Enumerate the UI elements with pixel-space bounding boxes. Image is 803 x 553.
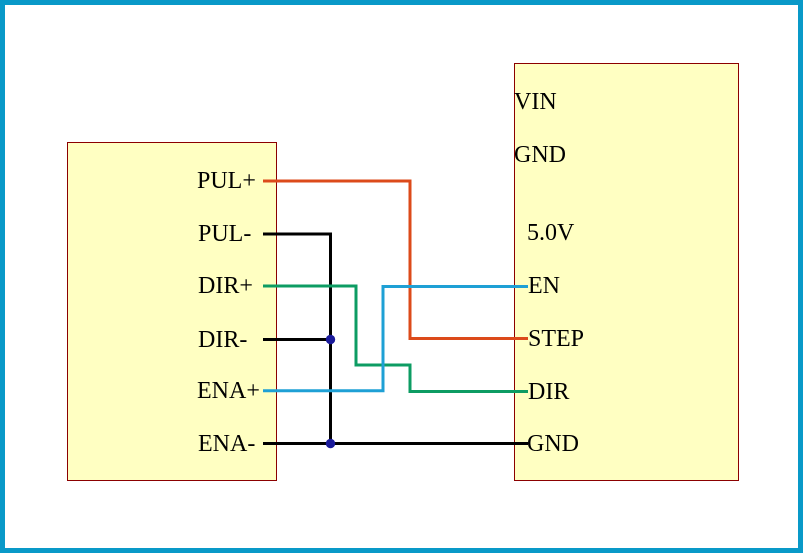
- pin label VIN: [514, 88, 557, 116]
- pin label ENA+: [197, 377, 260, 405]
- junction DIR-: [326, 335, 335, 344]
- pin label GND top: [514, 141, 566, 169]
- pin label 5.0V: [527, 219, 574, 247]
- wire ENA- to GND (black): [263, 442, 528, 445]
- driver box (left): [67, 142, 277, 481]
- pin label PUL+: [197, 167, 256, 195]
- wire ENA+ to EN (blue): [263, 287, 528, 391]
- pin label GND bottom: [527, 430, 579, 458]
- wire DIR+ to DIR (green): [263, 286, 528, 392]
- pin label EN: [528, 272, 560, 300]
- wire DIR- stub (black): [263, 338, 331, 341]
- pin label PUL-: [198, 220, 251, 248]
- pin label DIR+: [198, 272, 253, 300]
- junction ENA-: [326, 439, 335, 448]
- pin label STEP: [528, 325, 584, 353]
- wire PUL- vertical bus (black): [263, 234, 331, 444]
- wire PUL+ to STEP (orange): [263, 181, 528, 339]
- pin label DIR-: [198, 326, 247, 354]
- pin label ENA-: [198, 430, 255, 458]
- pin label DIR: [528, 378, 569, 406]
- controller box (right): [514, 63, 739, 481]
